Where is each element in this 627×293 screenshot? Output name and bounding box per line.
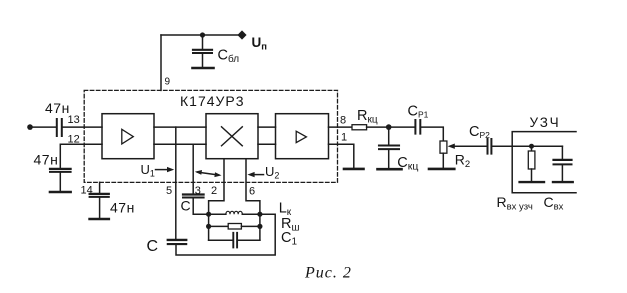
ground pin1 bar [344, 168, 364, 171]
wire pin 5 riser [175, 127, 177, 239]
resistor R2 [440, 141, 447, 153]
wire input to C series [30, 126, 56, 128]
capacitor Cбл [193, 35, 212, 67]
multiplier X symbol [222, 127, 243, 146]
multiplier block A2 [206, 114, 258, 159]
svg-text:8: 8 [340, 114, 346, 126]
inductor Lк [209, 211, 260, 214]
svg-text:6: 6 [249, 186, 255, 198]
svg-text:1: 1 [341, 131, 347, 143]
svg-text:C: C [147, 238, 159, 255]
op-amp triangle A3 [296, 131, 306, 142]
node tank top-right [257, 212, 262, 217]
capacitor 47н (pin 14) [90, 194, 109, 218]
arrow double between pins 3 and 2 [195, 170, 222, 177]
wire pin 9 riser [160, 35, 162, 90]
ground Rвх bar [520, 181, 544, 183]
capacitor 47н (pin 12) [50, 169, 71, 191]
label U2 with arrow [247, 164, 279, 181]
terminal input [27, 124, 33, 130]
node tank mid-left [206, 224, 211, 229]
svg-text:9: 9 [165, 77, 171, 88]
svg-text:47н: 47н [110, 200, 135, 216]
node УЗЧ input junction [529, 144, 534, 149]
block УЗЧ outline [512, 132, 576, 193]
svg-text:5: 5 [166, 185, 172, 197]
capacitor Cкц [379, 127, 399, 167]
node tank top-left [206, 212, 211, 217]
ground Свх bar [553, 181, 573, 183]
wire pin 1 [329, 144, 354, 167]
arrow R2 wiper [448, 144, 487, 149]
capacitor 47н series (input) [57, 119, 62, 136]
capacitor Cр1 [415, 120, 420, 134]
wire pin 8 [329, 126, 353, 128]
capacitor Cр2 [488, 139, 492, 154]
wire Cр2 to УЗЧ [492, 145, 562, 147]
wire tank left rail [208, 214, 210, 240]
resistor Rкц [352, 125, 367, 130]
wire pin 3 riser [192, 144, 194, 193]
wire bus upper A2-A3 [258, 126, 276, 128]
resistor Rш [209, 224, 260, 230]
svg-text:C: C [181, 198, 191, 214]
capacitor C1 [209, 233, 260, 248]
ground Cбл bar [193, 67, 214, 70]
capacitor Свх [554, 146, 572, 181]
amplifier block A3 [276, 114, 329, 159]
wire tank to outer loop [176, 214, 275, 255]
wire R2 to ground [442, 153, 444, 167]
wire Rкц to Cр1 [367, 126, 415, 128]
node supply junction [200, 32, 205, 37]
svg-text:К174УР3: К174УР3 [180, 93, 245, 109]
node output junction [386, 124, 392, 130]
IC K174UR3 dashed boundary [84, 90, 337, 182]
node tank mid-right [257, 224, 262, 229]
ground R2 bar [429, 168, 454, 171]
svg-text:47н: 47н [34, 152, 59, 168]
wire pin 12 [60, 144, 102, 167]
capacitor C (pin 5 series) [168, 240, 186, 244]
ground pin12 bar [50, 191, 71, 194]
wire bus lower A1-A2 [154, 143, 206, 145]
svg-text:Рис. 2: Рис. 2 [304, 265, 352, 282]
svg-text:2: 2 [211, 185, 217, 197]
wire C series to pin 13 [63, 126, 102, 128]
ground Cкц bar [378, 168, 402, 171]
wire pin 6 [246, 159, 260, 215]
wire Cр1 to R2 [421, 127, 443, 141]
capacitor C (pin 3) [183, 195, 209, 215]
svg-text:13: 13 [68, 114, 80, 126]
wire Uп supply rail [161, 34, 242, 36]
svg-text:47н: 47н [45, 100, 70, 116]
wire tank right rail [259, 214, 261, 240]
op-amp triangle A1 [122, 129, 134, 144]
ground pin14 bar [90, 218, 109, 221]
wire pin 2 [209, 159, 224, 215]
label U1 with arrow [141, 162, 175, 179]
svg-text:12: 12 [68, 134, 80, 146]
wire bus upper A1-A2 [154, 126, 206, 128]
terminal Uп [237, 30, 246, 39]
wire pin 14 stub [99, 182, 101, 193]
resistor Rвх узч [528, 146, 535, 181]
wire bus lower A2-A3 [258, 143, 276, 145]
svg-text:УЗЧ: УЗЧ [530, 115, 561, 130]
amplifier block A1 [102, 114, 154, 159]
